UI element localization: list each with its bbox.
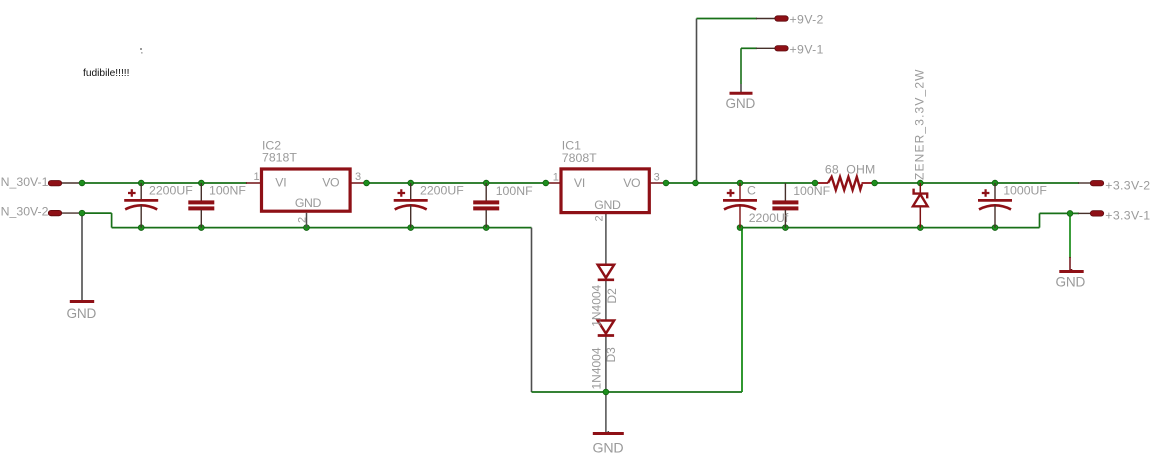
svg-text:IN_30V-2: IN_30V-2 (0, 205, 49, 219)
resistor R 68 OHM zigzag (828, 177, 862, 190)
capacitor C5 C/2200Uf : top pin (739, 183, 741, 199)
svg-text:GND: GND (67, 306, 97, 321)
capacitor C5 C/2200Uf : bottom plate arc (724, 205, 756, 209)
wire net GNDOUT bottom rail right (740, 227, 1040, 229)
node J9 +9V riser (693, 180, 699, 186)
svg-text:GND: GND (1056, 274, 1086, 289)
capacitor C5 C/2200Uf : bottom pin (739, 205, 741, 228)
svg-text:GND: GND (594, 198, 621, 212)
capacitor C7 1000UF : plus sign (982, 189, 990, 197)
svg-text:7808T: 7808T (562, 151, 597, 165)
wire +9V-1 drop to GND (740, 48, 742, 84)
capacitor C4 100NF : bottom pin (485, 210, 487, 228)
wire net GNDOUT step up (1039, 213, 1041, 227)
op-amp regulator IC2 7818T box (262, 169, 351, 211)
capacitor C4 100NF : top plate (473, 200, 499, 204)
terminal pad +9V-1 (775, 46, 788, 51)
svg-text:2200UF: 2200UF (149, 184, 193, 198)
node J6 cap C4 top (483, 180, 489, 186)
wire D3 to GND junction (605, 336, 607, 393)
svg-text:GND: GND (295, 196, 322, 210)
capacitor C1 2200UF : bottom plate arc (125, 205, 157, 209)
capacitor C3 2200UF : top pin (410, 183, 412, 199)
capacitor C1 2200UF : top plate (124, 199, 158, 202)
node J1 in1 (79, 180, 85, 186)
svg-text:7818T: 7818T (262, 151, 297, 165)
capacitor C5 C/2200Uf : top plate (723, 199, 757, 202)
capacitor C6 100NF : top pin (784, 183, 786, 201)
ground symbol GND right (+3.3V) : pin wire (1071, 269, 1073, 271)
wire +9V-2 horizontal (697, 18, 758, 20)
capacitor C2 100NF : bottom pin (200, 210, 202, 228)
ground symbol GND bottom (diodes) : bar (593, 432, 624, 435)
svg-text:GND: GND (726, 96, 756, 111)
wire IC2 pin VI stub (246, 182, 261, 184)
terminal pad +3.3V-2 (1090, 181, 1103, 186)
node J25 cap C7 bottom (992, 225, 998, 231)
wire net GNDOUT to output (1040, 212, 1080, 214)
node J24 zener bottom (917, 225, 923, 231)
node J16 out gnd (1067, 211, 1073, 217)
wire IC2 pin VO stub (351, 182, 367, 184)
ground symbol GND bottom (diodes) : pin wire (607, 431, 609, 433)
wire net +3.3V top rail (resistor to output) (875, 182, 1079, 184)
svg-text:D3: D3 (604, 347, 618, 363)
capacitor C3 2200UF : bottom plate arc (395, 205, 427, 209)
wire IC1 GND pin chain to D2 (605, 213, 607, 265)
ground symbol GND top (+9V) : bar (730, 92, 753, 95)
svg-text:1000UF: 1000UF (1003, 184, 1047, 198)
capacitor C3 2200UF : bottom pin (410, 205, 412, 228)
diode D2 1N4004 : triangle (598, 265, 614, 278)
ground symbol GND left : pin wire (81, 290, 83, 301)
capacitor C5 C/2200Uf : plus sign (727, 189, 735, 197)
capacitor C6 100NF : bottom pin (784, 210, 786, 228)
svg-text:fudibile!!!!!: fudibile!!!!! (83, 68, 129, 79)
wire right GND symbol pin (1069, 257, 1071, 270)
wire IN_30V-1 pad lead (62, 182, 82, 184)
wire net GNDIN step down (111, 213, 113, 228)
node J12 resistor right (872, 180, 878, 186)
svg-text:+3.3V-1: +3.3V-1 (1105, 208, 1150, 222)
capacitor C1 2200UF : top pin (140, 183, 142, 199)
diode D2 1N4004 : cathode bar (598, 278, 614, 281)
wire IC1 pin VI stub (546, 182, 561, 184)
terminal pad +3.3V-1 (1090, 211, 1103, 216)
node J18 cap C2 bottom (198, 225, 204, 231)
wire net N1 top rail left (pad1 to IC2 pin1) (82, 182, 247, 184)
capacitor C2 100NF : top pin (200, 183, 202, 201)
svg-text:100NF: 100NF (793, 184, 830, 198)
wire GNDIN drop to GND symbol (81, 213, 83, 290)
op-amp regulator IC1 7808T box (561, 169, 649, 213)
capacitor C2 100NF : top plate (188, 200, 214, 204)
svg-text:+3.3V-2: +3.3V-2 (1105, 178, 1150, 192)
wire D2 to D3 link (605, 280, 607, 321)
svg-text:VI: VI (275, 176, 286, 190)
wire net +9V rail (IC1 out rightwards) (666, 182, 816, 184)
wire net N2 top rail (IC2 out to IC1 in) (367, 182, 547, 184)
svg-text:100NF: 100NF (496, 184, 533, 198)
capacitor C4 100NF : bottom plate (473, 206, 499, 210)
wire resistor R right lead (862, 182, 876, 184)
svg-text:+9V-2: +9V-2 (790, 13, 824, 27)
svg-text:100NF: 100NF (209, 183, 246, 197)
node J14 cap C7 top (992, 180, 998, 186)
svg-text:C: C (747, 183, 756, 197)
svg-text:2200Uf: 2200Uf (749, 211, 789, 225)
svg-text:1N4004: 1N4004 (590, 347, 604, 389)
wire cap C riser to diode GND net (741, 228, 743, 392)
terminal pad IN_30V-1 (48, 181, 61, 186)
capacitor C2 100NF : bottom plate (188, 206, 214, 210)
svg-text:3: 3 (355, 171, 361, 183)
svg-text:D2: D2 (605, 288, 619, 304)
wire vertical riser to +9V-2 (696, 19, 698, 184)
node J19 IC2 gnd (304, 225, 310, 231)
wire net GNDIN bottom rail left (112, 227, 532, 229)
capacitor C7 1000UF : top plate (978, 199, 1012, 202)
zener diode triangle (913, 194, 928, 206)
node J3 cap C2 top (198, 180, 204, 186)
wire IN_30V-2 pad lead (62, 212, 82, 214)
capacitor C7 1000UF : bottom pin (994, 205, 996, 228)
svg-text:VI: VI (574, 176, 585, 190)
wire +3.3V-2 pad lead (1078, 182, 1091, 184)
svg-text:ZENER_3.3V_2W: ZENER_3.3V_2W (913, 68, 927, 180)
IC2 pin 2 stub (306, 213, 308, 228)
wire +9V-2 pad lead (756, 18, 776, 20)
svg-text:2200UF: 2200UF (420, 184, 464, 198)
zener diode bottom pin (919, 206, 921, 227)
diode D3 1N4004 : triangle (598, 321, 614, 334)
svg-text:1: 1 (553, 171, 559, 183)
node J4 IC2 out (364, 180, 370, 186)
capacitor C3 2200UF : top plate (394, 199, 428, 202)
node J13 zener top (917, 180, 923, 186)
wire +3.3V-1 pad lead (1078, 212, 1091, 214)
svg-text:2: 2 (594, 215, 606, 221)
node J8 IC1 out (663, 180, 669, 186)
node J15 in2 (79, 210, 85, 216)
capacitor C1 2200UF : bottom pin (140, 205, 142, 228)
capacitor C1 2200UF : plus sign (128, 189, 136, 197)
svg-text:1N4004: 1N4004 (590, 284, 604, 326)
wire diode GND junction to GND symbol (605, 392, 607, 432)
wire diode GND net horizontal (532, 391, 743, 393)
node J21 cap C4 bottom (483, 225, 489, 231)
node J11 resistor left (812, 180, 818, 186)
node J26 diode gnd (603, 389, 609, 395)
svg-text:VO: VO (623, 176, 640, 190)
wire IC1 pin VO stub (650, 182, 666, 184)
svg-text:68 OHM: 68 OHM (825, 163, 876, 177)
ground symbol GND top (+9V) : pin wire (740, 84, 742, 92)
node J7 IC1 in (543, 180, 549, 186)
capacitor C4 100NF : top pin (485, 183, 487, 201)
svg-text:IN_30V-1: IN_30V-1 (0, 175, 49, 189)
svg-text:GND: GND (593, 441, 624, 457)
node J2 cap C1 top (138, 180, 144, 186)
wire +3.3V-1 drop to GND (1069, 213, 1071, 258)
zener diode top pin (919, 183, 921, 193)
svg-text:VO: VO (322, 176, 339, 190)
capacitor C3 2200UF : plus sign (398, 189, 406, 197)
node J20 cap C3 bottom (408, 225, 414, 231)
node J17 cap C1 bottom (138, 225, 144, 231)
node J10 cap C5 top (737, 180, 743, 186)
wire resistor R left lead (815, 182, 828, 184)
ground symbol GND right (+3.3V) : bar (1059, 270, 1083, 273)
terminal pad IN_30V-2 (48, 210, 61, 215)
svg-text:+9V-1: +9V-1 (790, 43, 824, 57)
svg-text:1: 1 (254, 171, 260, 183)
node J23 cap C6 bottom (783, 225, 789, 231)
capacitor C7 1000UF : bottom plate arc (979, 205, 1011, 209)
wire net GNDIN segment a (82, 212, 112, 214)
stray dots near top (140, 48, 142, 50)
wire +9V-1 horizontal (741, 47, 757, 49)
terminal pad +9V-2 (775, 16, 788, 21)
wire bottom rail drop at x531 (531, 228, 533, 392)
svg-text:3: 3 (654, 171, 660, 183)
diode D3 1N4004 : cathode bar (598, 334, 614, 337)
ground symbol GND left : bar (70, 300, 94, 303)
node J5 cap C3 top (408, 180, 414, 186)
node J22 cap C5 bottom (737, 225, 743, 231)
capacitor C7 1000UF : top pin (994, 183, 996, 199)
wire +9V-1 pad lead (756, 47, 776, 49)
capacitor C6 100NF : bottom plate (772, 206, 798, 210)
svg-text:2: 2 (297, 217, 309, 223)
zener diode cathode bar with bent ends (914, 189, 928, 199)
capacitor C6 100NF : top plate (772, 200, 798, 204)
